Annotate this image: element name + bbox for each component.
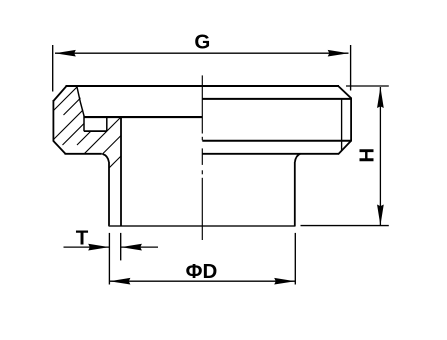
dimension T: extension line 1 bbox=[108, 233, 110, 285]
dimension G: left arrowhead bbox=[55, 50, 76, 57]
part outline: flange bottom right face bbox=[202, 153, 339, 155]
part outline: top-left chamfer bbox=[53, 86, 66, 101]
part outline: top-right chamfer bbox=[338, 86, 351, 98]
part outline: left tube wall bbox=[108, 162, 110, 226]
dimension T: left dimension line with arrow bbox=[64, 246, 110, 248]
inner groove left wall bbox=[83, 116, 85, 132]
dimension H: dimension line bbox=[379, 87, 381, 225]
dimension D: right arrowhead bbox=[274, 278, 295, 285]
centerline (vertical chain line) bbox=[201, 75, 203, 240]
inner seat face line to centerline bbox=[84, 116, 202, 118]
part outline: right edge bbox=[350, 98, 352, 142]
thread minor diameter line bbox=[341, 99, 343, 150]
part outline: flange bottom left face bbox=[65, 153, 102, 155]
part outline: left fillet bbox=[102, 154, 109, 162]
thread end line (right half) bbox=[202, 140, 351, 142]
dimension H: bottom arrowhead bbox=[377, 205, 384, 226]
dimension T: right dimension line with arrow bbox=[121, 246, 158, 248]
dimension D: dimension line bbox=[110, 280, 295, 282]
dimension G: dimension line bbox=[55, 52, 349, 54]
dimension D: left arrowhead bbox=[109, 278, 130, 285]
inner groove bottom face bbox=[84, 130, 107, 132]
hatch lines (section hatching, 45 degrees) bbox=[35, 30, 218, 170]
svg-text:G: G bbox=[194, 30, 210, 53]
dimension T: extension line 2 bbox=[120, 233, 122, 261]
part outline: bottom-right chamfer bbox=[338, 141, 351, 154]
dimension D: right extension line bbox=[294, 233, 296, 285]
dimension G: right arrowhead bbox=[328, 50, 349, 57]
dimension G: extension lines bbox=[52, 45, 54, 92]
dimension H: bottom extension line bbox=[301, 225, 389, 227]
part outline: bottom-left chamfer bbox=[53, 141, 65, 154]
thread start line (right half) bbox=[202, 98, 351, 100]
dimension H: top arrowhead bbox=[377, 87, 384, 108]
svg-text:ΦD: ΦD bbox=[186, 260, 218, 283]
dimension H: top extension line bbox=[346, 85, 389, 87]
svg-text:T: T bbox=[76, 227, 89, 250]
part outline: tube bottom bbox=[109, 225, 296, 227]
part outline: right fillet bbox=[295, 154, 301, 162]
part outline: top face bbox=[66, 85, 340, 87]
svg-text:H: H bbox=[356, 148, 379, 163]
inner tube bore wall bbox=[120, 117, 122, 226]
inner bore slant (left section) bbox=[77, 87, 84, 116]
part outline: right tube wall bbox=[294, 162, 296, 226]
inner groove right wall bbox=[106, 117, 108, 131]
part outline: left edge bbox=[52, 100, 54, 142]
